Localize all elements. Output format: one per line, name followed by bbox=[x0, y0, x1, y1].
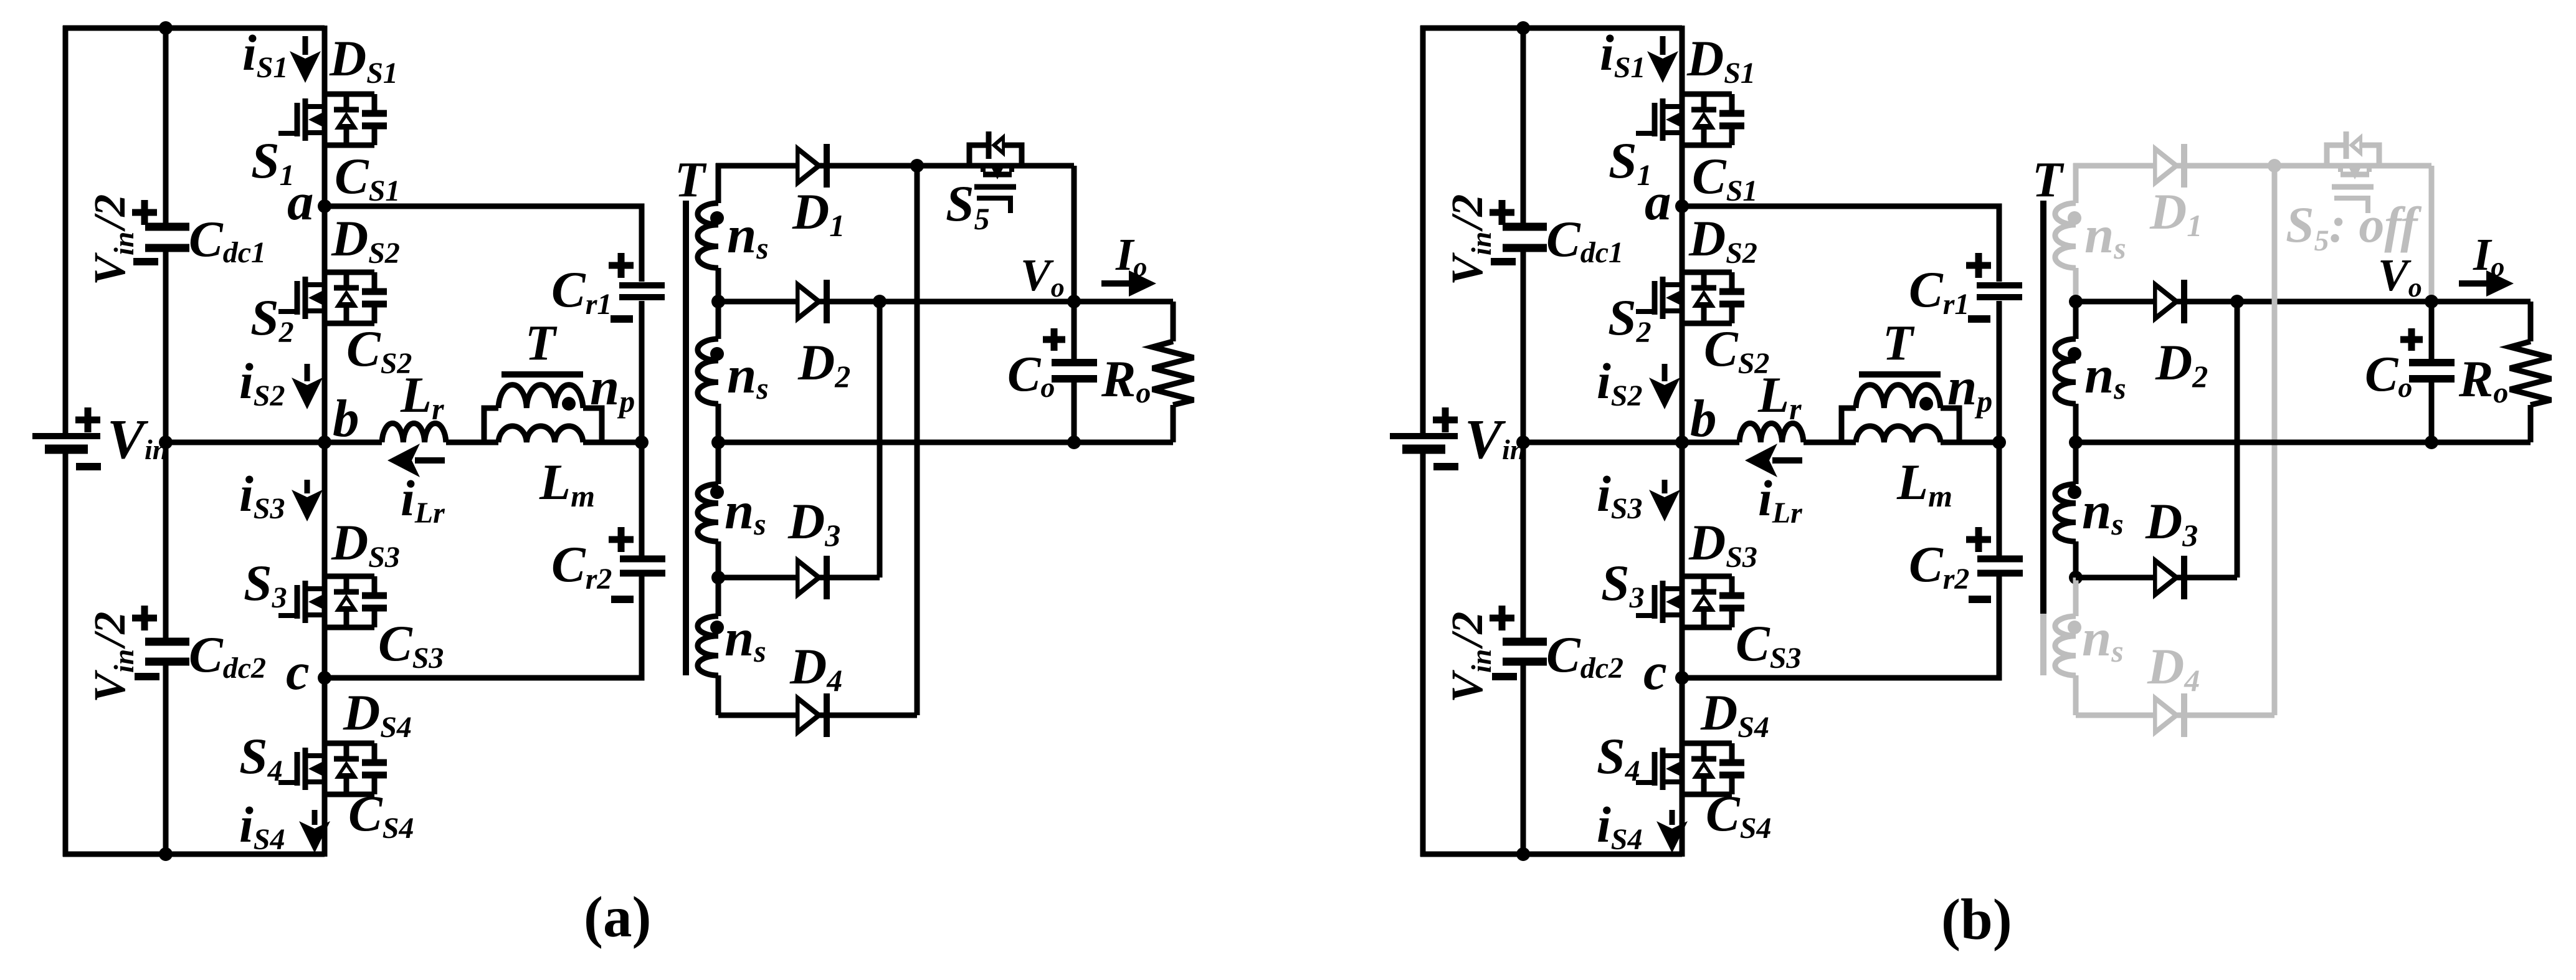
body diode DS1 cathode bar bbox=[334, 107, 359, 113]
node dot D3 column top (a) bbox=[873, 295, 886, 308]
transistor S1b gate lead bbox=[1636, 131, 1655, 136]
switch S5 channel bar (b) bbox=[2341, 172, 2369, 178]
body diode DS2 cathode bar bbox=[334, 285, 359, 291]
inductor Lr (b) bbox=[1739, 424, 1804, 442]
capacitor Cdc1 top plate (a) bbox=[145, 223, 189, 231]
transformer core bar black part (b) bbox=[2040, 201, 2046, 614]
transistor S3b source stub bbox=[1665, 612, 1682, 617]
transistor S1b body arrow bbox=[1666, 113, 1680, 126]
snubber cap CS4b top plate bbox=[1719, 759, 1744, 766]
switch S5 body diode cathode bar (b) bbox=[2344, 131, 2349, 159]
wire switch column (a) bbox=[322, 26, 328, 857]
node b dot (a) bbox=[318, 435, 331, 449]
capacitor Cdc2 plus sign (b) bbox=[1490, 606, 1514, 630]
body diode DS1b triangle bbox=[1692, 112, 1716, 130]
transistor S2 source stub bbox=[308, 308, 325, 313]
node dot Cdc mid (b) bbox=[1516, 435, 1530, 449]
transistor S1 body arrow bbox=[308, 113, 322, 126]
svg-text:(b): (b) bbox=[1941, 888, 2012, 952]
diode D3 b triangle bbox=[2153, 556, 2180, 599]
node dot Vo (b) bbox=[2425, 295, 2438, 308]
transistor S1 gate lead bbox=[278, 131, 297, 136]
winding ns3 polarity dot (a) bbox=[710, 485, 724, 499]
winding ns2 polarity dot (a) bbox=[710, 347, 724, 361]
svg-text:b: b bbox=[333, 389, 359, 448]
capacitor Co bottom lead (a) bbox=[1072, 383, 1077, 442]
capacitor Cdc1 top plate (b) bbox=[1503, 223, 1547, 231]
node dot center tap (a) bbox=[711, 435, 725, 449]
capacitor Cr1 top plate (b) bbox=[1977, 282, 2022, 288]
node dot top rail / Cdc (a) bbox=[159, 21, 173, 35]
node dot top rail / Cdc (b) bbox=[1516, 21, 1530, 35]
capacitor Cr1 plus sign (a) bbox=[609, 253, 634, 278]
switch S5 gate bar (b) bbox=[2332, 184, 2374, 190]
capacitor Cr1 plus sign (b) bbox=[1966, 253, 1991, 278]
body diode DS2b triangle bbox=[1692, 290, 1716, 308]
body diode DS2 cathode stub bbox=[344, 272, 349, 288]
inductor Lm (a) bbox=[498, 426, 583, 442]
winding ns2 a coil bbox=[698, 339, 718, 404]
winding ns4 a coil bbox=[698, 616, 718, 675]
diode D4 b cathode bar bbox=[2181, 693, 2187, 737]
winding np polarity dot (b) bbox=[1919, 397, 1933, 411]
arrow iS4 (a) bbox=[312, 810, 318, 825]
transistor S1b drain stub bbox=[1665, 104, 1682, 109]
capacitor Cr2 minus sign (a) bbox=[611, 596, 634, 603]
wire ns2 to center tap (b) bbox=[2073, 404, 2079, 442]
capacitor Cdc1 bottom plate (b) bbox=[1503, 244, 1547, 252]
body diode DS3b loop top wire bbox=[1682, 574, 1732, 579]
transistor S1b gate bar bbox=[1652, 103, 1658, 136]
capacitor Cr2 top plate (a) bbox=[620, 556, 665, 563]
wire ns1 to tap (a) bbox=[716, 268, 721, 302]
capacitor Cdc1 bottom plate (a) bbox=[145, 244, 189, 252]
transistor S3 body arrow bbox=[308, 595, 322, 609]
arrow iS2 (b) bbox=[1662, 364, 1668, 381]
transistor S2b source stub bbox=[1665, 308, 1682, 313]
wire bottom rail (a) bbox=[63, 852, 325, 857]
wire D3 column (b) bbox=[2235, 302, 2240, 578]
switch S5 gate bar (a) bbox=[974, 184, 1016, 190]
transistor S2 gate bar bbox=[295, 281, 300, 315]
transistor S2 drain stub bbox=[308, 282, 325, 287]
svg-text:a: a bbox=[1645, 173, 1671, 231]
transistor S3 drain stub bbox=[308, 586, 325, 591]
wire D2 line (a) bbox=[718, 299, 1173, 305]
switch S5 drain stub (b) bbox=[2338, 166, 2343, 172]
node dot bottom rail / Cdc (b) bbox=[1516, 847, 1530, 861]
diode D3 a cathode bar bbox=[824, 556, 830, 599]
body diode DS4 loop top wire bbox=[325, 741, 374, 746]
body diode DS2 triangle bbox=[335, 290, 358, 308]
transistor S3 gate bar bbox=[295, 585, 300, 619]
capacitor Cr1 bottom plate (b) bbox=[1977, 294, 2022, 300]
transformer core bar gray part (b) bbox=[2040, 614, 2046, 675]
switch S5 gate lead (b) bbox=[2334, 198, 2368, 213]
transistor S4b drain stub bbox=[1665, 753, 1682, 758]
switch S5 body arrow (b) bbox=[2348, 166, 2362, 179]
capacitor Cr1 minus sign (a) bbox=[611, 315, 633, 323]
transistor S3b body arrow bbox=[1666, 595, 1680, 609]
wire D3 tap to ns4 (b) bbox=[2073, 578, 2079, 616]
snubber cap CS4 top lead bbox=[372, 743, 378, 759]
transistor S4b body arrow bbox=[1666, 762, 1680, 776]
switch S5 source stub (b) bbox=[2367, 166, 2372, 172]
transistor S2b gate lead bbox=[1636, 309, 1655, 314]
diode D2 b triangle bbox=[2153, 280, 2180, 323]
wire S5 rail segment (a) bbox=[969, 163, 1074, 169]
wire top rail (b) bbox=[1420, 26, 1682, 31]
inductor Lr (a) bbox=[382, 424, 446, 442]
wire D3 line (b) bbox=[2076, 575, 2237, 581]
node dot D3 tap (a) bbox=[711, 571, 725, 584]
winding ns3 polarity dot (b) bbox=[2068, 485, 2081, 499]
capacitor Co top plate (b) bbox=[2409, 359, 2455, 366]
winding ns2 polarity dot (b) bbox=[2068, 347, 2081, 361]
body diode DS1b anode stub bbox=[1701, 129, 1707, 145]
snubber cap CS1b top plate bbox=[1719, 110, 1744, 117]
body diode DS1b cathode stub bbox=[1701, 94, 1707, 110]
switch S5 body arrow (a) bbox=[991, 166, 1004, 179]
svg-text:T: T bbox=[2032, 153, 2065, 207]
wire S5 to Vo corner (b) bbox=[2429, 166, 2435, 302]
wire tap to ns2 (a) bbox=[716, 302, 721, 339]
snubber cap CS2b bottom lead bbox=[1729, 307, 1735, 323]
winding np coil (b) bbox=[1856, 385, 1941, 408]
body diode DS2b cathode stub bbox=[1701, 272, 1707, 288]
capacitor Cr2 plus sign (a) bbox=[609, 527, 634, 552]
diode D1 b cathode bar bbox=[2181, 144, 2187, 188]
snubber cap CS2 bottom plate bbox=[362, 301, 387, 308]
transistor S1b channel bar bbox=[1660, 98, 1666, 141]
wire winding top corner (a) bbox=[716, 163, 721, 203]
arrow iS3 (a) bbox=[305, 480, 310, 493]
diode D4 b triangle bbox=[2153, 693, 2180, 737]
wire Cdc column upper (b) bbox=[1521, 28, 1526, 223]
snubber cap CS3b bottom plate bbox=[1719, 605, 1744, 612]
transistor S4 drain stub bbox=[308, 753, 325, 758]
switch S5 body diode cathode bar (a) bbox=[986, 131, 992, 159]
capacitor Cr1 top plate (a) bbox=[619, 282, 665, 288]
inductor Lm (b) bbox=[1856, 426, 1941, 442]
arrow iS1 (b) bbox=[1660, 36, 1666, 55]
transistor S4 body arrow bbox=[308, 762, 322, 776]
svg-text:(a): (a) bbox=[584, 885, 651, 949]
wire S5 to Vo corner (a) bbox=[1072, 166, 1077, 302]
transistor S1 channel bar bbox=[303, 98, 308, 141]
winding np left leg (b) bbox=[1842, 408, 1856, 442]
node dot Co bottom (a) bbox=[1067, 435, 1081, 449]
transistor S2b drain stub bbox=[1665, 282, 1682, 287]
snubber cap CS1 top lead bbox=[372, 94, 378, 110]
wire D4 column (a) bbox=[915, 166, 920, 715]
snubber cap CS2 top plate bbox=[362, 288, 387, 295]
transistor S4 channel bar bbox=[303, 748, 308, 790]
wire Cr column middle (a) bbox=[639, 301, 645, 556]
resistor Ro zigzag (b) bbox=[2510, 341, 2551, 405]
wire Cdc column upper (a) bbox=[163, 28, 169, 223]
wire Lr to Lm (a) bbox=[446, 440, 498, 445]
switch S5 drain stub (a) bbox=[981, 166, 986, 172]
wire output bottom rail (b) bbox=[2076, 440, 2531, 445]
svg-text:a: a bbox=[287, 173, 314, 231]
body diode DS3b cathode stub bbox=[1701, 576, 1707, 592]
snubber cap CS1b bottom lead bbox=[1729, 129, 1735, 145]
arrow iS3 (b) bbox=[1662, 480, 1668, 493]
capacitor Cdc1 minus sign (a) bbox=[133, 258, 158, 265]
capacitor Cr2 bottom plate (a) bbox=[620, 570, 665, 577]
transistor S4b channel bar bbox=[1660, 748, 1666, 790]
capacitor Cdc2 minus sign (b) bbox=[1492, 673, 1517, 680]
transistor S2b body arrow bbox=[1666, 291, 1680, 305]
body diode DS3 anode stub bbox=[344, 611, 349, 627]
wire node c rail (a) bbox=[325, 576, 642, 678]
snubber cap CS3b top plate bbox=[1719, 592, 1744, 599]
svg-text:T: T bbox=[1883, 316, 1915, 371]
wire left rail upper (a) bbox=[63, 26, 69, 437]
wire D3 tap to ns4 (a) bbox=[716, 578, 721, 616]
node c dot (b) bbox=[1675, 671, 1689, 685]
diode D3 b cathode bar bbox=[2181, 556, 2187, 599]
wire Cdc column lower (b) bbox=[1521, 665, 1526, 854]
transistor S3b channel bar bbox=[1660, 581, 1666, 623]
snubber cap CS2b bottom plate bbox=[1719, 301, 1744, 308]
body diode DS4b cathode stub bbox=[1701, 743, 1707, 759]
wire D3 line (a) bbox=[718, 575, 880, 581]
capacitor Co top plate (a) bbox=[1052, 359, 1097, 366]
body diode DS3 loop top wire bbox=[325, 574, 374, 579]
transistor S3 source stub bbox=[308, 612, 325, 617]
wire node a rail (b) bbox=[1682, 206, 1999, 282]
body diode DS4b triangle bbox=[1692, 761, 1716, 779]
switch S5 loop left leg (a) bbox=[969, 145, 989, 166]
body diode DS4b cathode bar bbox=[1691, 756, 1716, 762]
resistor Ro zigzag (a) bbox=[1153, 341, 1194, 405]
snubber cap CS3 bottom plate bbox=[362, 605, 387, 612]
wire left rail lower (a) bbox=[63, 449, 69, 857]
node dot Cr / Lm (b) bbox=[1992, 435, 2006, 449]
capacitor Cdc1 plus sign (b) bbox=[1490, 200, 1514, 225]
capacitor Co plus sign (b) bbox=[2400, 328, 2423, 351]
resistor Ro top lead (b) bbox=[2528, 302, 2534, 341]
body diode DS2b loop bottom wire bbox=[1682, 321, 1732, 326]
winding ns1 polarity dot (b) bbox=[2068, 211, 2081, 225]
winding np left leg (a) bbox=[484, 408, 498, 442]
battery Vin long plate (a) bbox=[32, 433, 100, 439]
wire Cdc column middle (b) bbox=[1521, 252, 1526, 638]
transistor S4b gate bar bbox=[1652, 752, 1658, 786]
body diode DS2b loop top wire bbox=[1682, 270, 1732, 275]
transformer T bar primary (b) bbox=[1859, 371, 1941, 378]
node dot center tap (b) bbox=[2069, 435, 2083, 449]
wire Lm to Cr node (a) bbox=[583, 440, 642, 445]
snubber cap CS4 top plate bbox=[362, 759, 387, 766]
wire D4 column (b) bbox=[2272, 166, 2278, 715]
arrow iS1 (a) bbox=[303, 36, 308, 55]
wire Cr column middle (b) bbox=[1997, 301, 2002, 556]
switch S5 body diode triangle (a) bbox=[991, 133, 1005, 157]
node dot Cdc mid (a) bbox=[159, 435, 173, 449]
node dot D2 tap (a) bbox=[711, 295, 725, 308]
body diode DS3b cathode bar bbox=[1691, 589, 1716, 595]
node dot D3 column top (b) bbox=[2230, 295, 2244, 308]
winding ns1 polarity dot (a) bbox=[710, 211, 724, 225]
wire ns4 to D4 line (a) bbox=[716, 675, 721, 715]
wire ns4 to D4 line (b) bbox=[2073, 675, 2079, 715]
diode D3 a triangle bbox=[796, 556, 823, 599]
wire center tap to ns3 (a) bbox=[716, 442, 721, 484]
wire node b to Lr (b) bbox=[1682, 440, 1739, 445]
arrow iLr (a) bbox=[415, 457, 445, 464]
transistor S3b drain stub bbox=[1665, 586, 1682, 591]
transistor S4b gate lead bbox=[1636, 780, 1655, 785]
node dot Co bottom (b) bbox=[2425, 435, 2438, 449]
transistor S2b channel bar bbox=[1660, 277, 1666, 319]
transistor S1b source stub bbox=[1665, 130, 1682, 135]
transistor S3 channel bar bbox=[303, 581, 308, 623]
snubber cap CS3b top lead bbox=[1729, 576, 1735, 592]
svg-text:c: c bbox=[1643, 642, 1667, 701]
transformer T bar primary (a) bbox=[501, 371, 583, 378]
arrow iLr (b) bbox=[1772, 457, 1802, 464]
wire node a rail (a) bbox=[325, 206, 642, 282]
body diode DS1b loop top wire bbox=[1682, 92, 1732, 97]
arrow iS2 (a) bbox=[305, 364, 310, 381]
transistor S3b gate lead bbox=[1636, 613, 1655, 618]
wire center tap to ns3 (b) bbox=[2073, 442, 2079, 484]
node dot D2 tap (b) bbox=[2069, 295, 2083, 308]
wire ns3 to D3 tap (b) bbox=[2073, 541, 2079, 578]
capacitor Cdc1 plus sign (a) bbox=[132, 200, 157, 225]
body diode DS2 loop top wire bbox=[325, 270, 374, 275]
body diode DS1b loop bottom wire bbox=[1682, 143, 1732, 148]
wire secondary top rail (b) bbox=[2073, 163, 2327, 169]
wire Lr to Lm (b) bbox=[1804, 440, 1856, 445]
snubber cap CS2b top lead bbox=[1729, 272, 1735, 288]
snubber cap CS3b bottom lead bbox=[1729, 611, 1735, 627]
wire left rail lower (b) bbox=[1420, 449, 1426, 857]
winding ns4 polarity dot (b) bbox=[2068, 621, 2081, 634]
snubber cap CS4 bottom lead bbox=[372, 778, 378, 794]
snubber cap CS4 bottom plate bbox=[362, 772, 387, 779]
capacitor Co top lead (b) bbox=[2429, 302, 2435, 359]
wire Cdc column lower (a) bbox=[163, 665, 169, 854]
diode D2 a cathode bar bbox=[824, 280, 830, 323]
snubber cap CS3 top plate bbox=[362, 592, 387, 599]
wire D2 line (b) bbox=[2076, 299, 2531, 305]
snubber cap CS2 top lead bbox=[372, 272, 378, 288]
capacitor Cr2 top plate (b) bbox=[1977, 556, 2023, 563]
switch S5 loop right leg (b) bbox=[2362, 145, 2379, 166]
capacitor Cr1 minus sign (b) bbox=[1968, 315, 1990, 323]
diode D2 b cathode bar bbox=[2181, 280, 2187, 323]
node a dot (b) bbox=[1675, 199, 1689, 213]
snubber cap CS1 bottom plate bbox=[362, 123, 387, 130]
winding ns3 b coil bbox=[2055, 484, 2076, 541]
diode D1 a cathode bar bbox=[824, 144, 830, 188]
switch S5 gate lead (a) bbox=[977, 198, 1010, 213]
battery Vin short plate (b) bbox=[1402, 445, 1445, 454]
body diode DS4b loop top wire bbox=[1682, 741, 1732, 746]
resistor Ro bottom lead (a) bbox=[1171, 405, 1176, 442]
wire switch column (b) bbox=[1680, 26, 1685, 857]
capacitor Cdc2 bottom plate (a) bbox=[145, 658, 189, 666]
battery Vin plus sign (a) bbox=[75, 407, 100, 432]
snubber cap CS1 top plate bbox=[362, 110, 387, 117]
transistor S3b gate bar bbox=[1652, 585, 1658, 619]
node b dot (b) bbox=[1675, 435, 1689, 449]
diode D1 b triangle bbox=[2153, 144, 2180, 188]
arrow Io (b) bbox=[2459, 280, 2488, 287]
capacitor Cr2 plus sign (b) bbox=[1966, 527, 1991, 552]
winding ns4 b coil bbox=[2055, 616, 2076, 675]
svg-text:T: T bbox=[675, 153, 707, 207]
wire S5 rail segment (b) bbox=[2327, 163, 2431, 169]
wire tap to ns2 (b) bbox=[2073, 302, 2079, 339]
snubber cap CS1b bottom plate bbox=[1719, 123, 1744, 130]
winding np polarity dot (a) bbox=[562, 397, 576, 411]
transistor S4 gate lead bbox=[278, 780, 297, 785]
resistor Ro bottom lead (b) bbox=[2528, 405, 2534, 442]
node dot D1 / D4 column (b) bbox=[2268, 159, 2281, 173]
body diode DS1 anode stub bbox=[344, 129, 349, 145]
body diode DS3 loop bottom wire bbox=[325, 625, 374, 630]
node c dot (a) bbox=[318, 671, 331, 685]
snubber cap CS4b bottom lead bbox=[1729, 778, 1735, 794]
body diode DS2 loop bottom wire bbox=[325, 321, 374, 326]
body diode DS3 cathode stub bbox=[344, 576, 349, 592]
switch S5 body diode triangle (b) bbox=[2349, 133, 2362, 157]
wire Vin mid rail (a) bbox=[166, 440, 325, 445]
switch S5 source stub (a) bbox=[1009, 166, 1014, 172]
snubber cap CS1 bottom lead bbox=[372, 129, 378, 145]
transistor S2 body arrow bbox=[308, 291, 322, 305]
body diode DS1b cathode bar bbox=[1691, 107, 1716, 113]
body diode DS4 anode stub bbox=[344, 778, 349, 794]
capacitor Cdc2 bottom plate (b) bbox=[1503, 658, 1547, 666]
transistor S1 source stub bbox=[308, 130, 325, 135]
body diode DS3 triangle bbox=[335, 594, 358, 612]
wire D4 line (a) bbox=[718, 713, 917, 718]
node dot Vo (a) bbox=[1067, 295, 1081, 308]
body diode DS4 cathode bar bbox=[334, 756, 359, 762]
body diode DS2b cathode bar bbox=[1691, 285, 1716, 291]
body diode DS3b anode stub bbox=[1701, 611, 1707, 627]
body diode DS1 cathode stub bbox=[344, 94, 349, 110]
battery Vin plus sign (b) bbox=[1433, 407, 1458, 432]
arrow iS4 (b) bbox=[1670, 810, 1675, 825]
node dot bottom rail / Cdc (a) bbox=[159, 847, 173, 861]
battery Vin short plate (a) bbox=[45, 445, 88, 454]
wire Lm to Cr node (b) bbox=[1941, 440, 1999, 445]
wire top rail (a) bbox=[63, 26, 325, 31]
switch S5 loop right leg (a) bbox=[1005, 145, 1022, 166]
wire ns2 to center tap (a) bbox=[716, 404, 721, 442]
svg-text:T: T bbox=[525, 316, 558, 371]
svg-text:S5: off: S5: off bbox=[2286, 196, 2422, 257]
transistor S2 gate lead bbox=[278, 309, 297, 314]
transistor S3 gate lead bbox=[278, 613, 297, 618]
wire winding top corner (b) bbox=[2073, 163, 2079, 203]
wire bottom rail (b) bbox=[1420, 852, 1682, 857]
arrow Io (a) bbox=[1101, 280, 1130, 287]
transistor S1 gate bar bbox=[295, 103, 300, 136]
wire node c rail (b) bbox=[1682, 576, 1999, 678]
wire Vin mid rail (b) bbox=[1523, 440, 1682, 445]
battery Vin minus sign (b) bbox=[1433, 463, 1458, 470]
transistor S1 drain stub bbox=[308, 104, 325, 109]
body diode DS3 cathode bar bbox=[334, 589, 359, 595]
